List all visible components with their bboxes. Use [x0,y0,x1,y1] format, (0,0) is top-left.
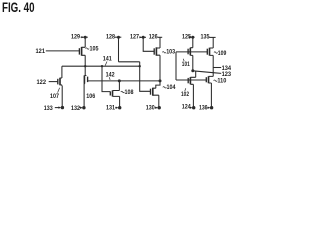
wire 134 tick [213,67,221,69]
transistor Q109 [207,48,213,56]
arrow terminal 136 [208,107,211,109]
leader of label 102 [185,88,186,91]
wire source Q105 to drain Q106 [84,55,86,75]
svg-text:110: 110 [217,79,227,85]
wire source Q106 to terminal 132 [83,84,85,108]
wire source Q108 to terminal 131 [119,96,121,107]
node junction 141 col B [84,65,86,67]
svg-text:FIG. 40: FIG. 40 [2,0,35,15]
leader of label 104 [163,87,167,88]
wire 132 lead [80,107,81,109]
svg-text:141: 141 [103,57,113,63]
arrow terminal 131 [116,107,119,109]
node terminal 132 dot [82,106,85,109]
svg-text:105: 105 [90,47,100,53]
arrow terminal 132 [80,107,83,109]
wire gate 121 to Q105 [46,50,80,52]
wire drain of Q105 [84,37,86,47]
wire 124 lead [190,107,192,109]
wire 129 lead [81,36,88,38]
wire 128 column down [118,37,120,62]
wire 126 lead [158,36,163,38]
wire 135 corner to drain Q109 [212,37,214,48]
wire 131 lead [115,107,116,109]
wire 122 to gate Q107 [49,81,58,83]
leader of label 105 [86,48,90,49]
arrow terminal 124 [190,107,193,109]
wire 141 horizontal [62,65,140,67]
leader of label 103 [162,52,166,53]
transistor Q106 mirrored [84,75,87,83]
wire 142 horizontal [88,80,160,82]
wire 141 to gate of Q108 [102,66,110,91]
svg-text:102: 102 [181,92,190,98]
svg-text:106: 106 [86,94,96,100]
node terminal 124 dot [192,106,195,109]
wire 128 lead [115,36,121,38]
node 127 dot [142,36,145,39]
transistor Q110 [206,76,213,83]
leader of label 107 [58,88,60,93]
wire gate bus of Q101 Q109 [176,51,207,53]
transistor Q108 [110,90,119,96]
wire 135 lead [209,36,215,38]
svg-text:129: 129 [71,34,81,40]
svg-text:127: 127 [130,34,140,40]
arrow terminal 129 [81,36,84,38]
wire 130 lead [155,107,156,109]
wire 127 lead [139,36,146,38]
wire 125 lead [191,36,195,38]
node junction 134 tap [191,69,194,72]
wire 128 jog to col F [119,61,140,63]
leader of label 142 [108,77,111,80]
node junction 141 col F [139,65,141,67]
svg-text:131: 131 [106,105,116,111]
wire 133 lead [55,107,60,109]
transistor Q102 [188,77,196,84]
svg-text:128: 128 [106,34,116,40]
node junction 142 right end [159,79,162,82]
wire col F down to gate Q104 [140,62,151,92]
transistor Q105 [79,47,85,56]
leader of label 110 [214,80,218,81]
node terminal 130 dot [158,106,161,109]
wire source Q110 to terminal 136 [210,83,212,108]
transistor Q104 [151,88,159,96]
wire gate bracket col J [175,52,177,80]
svg-text:103: 103 [166,49,176,55]
wire source Q103 down to 142 [159,55,161,81]
node junction 141 col C [101,65,103,67]
transistor Q103 [154,47,160,55]
svg-text:130: 130 [146,105,156,111]
node 128 dot [117,36,120,39]
wire source Q107 to terminal 133 [61,85,63,108]
wire source Q101 down to node 134 [192,55,194,70]
wire 127 column to gate Q103 [143,37,154,51]
node terminal 133 dot [61,106,64,109]
transistor Q107 [58,78,62,86]
wire 126 corner to drain Q103 [159,37,161,48]
svg-text:142: 142 [106,73,116,79]
arrow terminal 130 [155,107,158,109]
arrow terminal 125 [189,36,192,38]
svg-text:123: 123 [222,72,232,78]
svg-text:108: 108 [125,90,135,96]
leader of label 141 [105,62,107,66]
svg-text:107: 107 [50,94,60,100]
svg-text:126: 126 [149,34,159,40]
wire 142 link down to drain Q104 [156,81,160,88]
svg-text:132: 132 [71,106,81,112]
arrow terminal 133 [58,106,61,108]
wire source Q104 to terminal 130 [158,95,160,108]
leader of label 101 [183,59,184,62]
svg-text:133: 133 [44,106,54,112]
svg-text:135: 135 [201,34,211,40]
arrow terminal 127 [139,36,142,38]
wire gate bus of Q102 Q110 [176,79,206,81]
wire drain Q101 [192,37,194,48]
leader of label 108 [121,91,125,92]
wire drain riser Q102 [195,71,197,77]
svg-text:136: 136 [199,106,208,112]
wire 136 lead [207,107,210,109]
node terminal 136 dot [210,106,213,109]
node terminal 131 dot [118,106,121,109]
transistor Q101 [188,48,193,56]
wire source Q109 down to drain Q110 [212,55,214,76]
node 125 dot [191,36,194,39]
svg-text:109: 109 [218,51,227,57]
wire source Q102 to terminal 124 [192,84,194,107]
node junction 142 drain Q108 [118,79,121,82]
leader of label 109 [214,52,218,53]
svg-text:104: 104 [167,85,177,91]
svg-text:125: 125 [182,34,192,40]
svg-text:101: 101 [182,62,191,68]
svg-text:121: 121 [36,49,46,55]
svg-text:124: 124 [182,104,192,110]
wire drain Q107 up to 141 corner [61,66,63,78]
wire 123 line from node to label [193,71,221,74]
svg-text:122: 122 [37,80,47,86]
wire drain Q108 up to 142 [118,81,120,91]
node 129 dot [84,36,87,39]
